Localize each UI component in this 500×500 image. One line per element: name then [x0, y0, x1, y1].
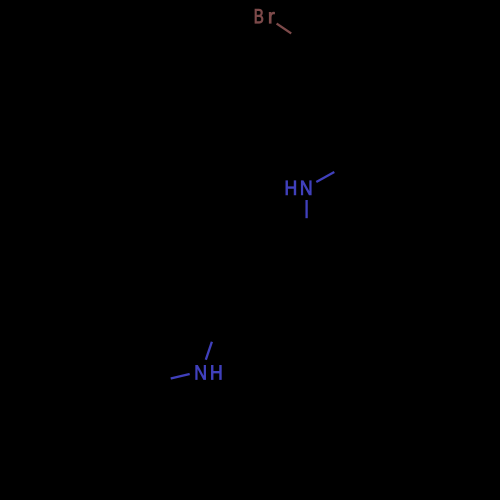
bond N1-C left half-bond [171, 374, 190, 379]
atom label Br : glyph B [255, 9, 263, 23]
atom label NH : glyph N [196, 365, 206, 379]
bond Br-C half-bond [277, 24, 292, 34]
bond N2-C down half-bond [305, 200, 307, 218]
bond N2-C up-right half-bond [316, 172, 334, 182]
atom label HN : glyph H [286, 181, 296, 195]
atom label Br : glyph r [269, 12, 274, 23]
atom label NH : glyph H [211, 365, 221, 379]
bond N1-C up-right half-bond [206, 342, 212, 360]
atom label HN : glyph N [301, 181, 311, 195]
